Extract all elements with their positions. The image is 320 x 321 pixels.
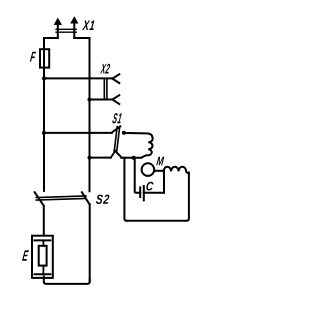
connector X2 lower contact — [90, 95, 120, 104]
node: junction right bus / X2 arm — [88, 98, 92, 102]
label S2 — [96, 195, 110, 204]
plug X1 — [44, 17, 90, 38]
heating element E — [32, 236, 53, 278]
label E — [22, 250, 29, 260]
connector X2 upper contact — [44, 74, 119, 83]
connector X2 bar — [104, 79, 107, 100]
label X1 — [82, 21, 94, 31]
switch S1 linkage bar — [114, 127, 120, 152]
label C — [146, 182, 153, 191]
motor winding L2 — [164, 167, 189, 173]
wire motor loop right and bottom — [127, 173, 189, 221]
switch S2 left pole — [35, 192, 44, 235]
node: junction left bus / X2 arm — [42, 76, 46, 80]
wire rotor to winding L2 — [154, 170, 163, 172]
node: junction right bus / S1 arm — [88, 156, 92, 160]
wire node A down to capacitor — [135, 158, 141, 193]
capacitor C — [140, 186, 164, 200]
switch S1 upper pole — [44, 126, 120, 132]
fuse F — [40, 49, 49, 67]
wire node B down to loop bottom — [124, 158, 126, 221]
label M — [156, 157, 164, 166]
wire bottom return — [44, 277, 90, 284]
motor winding L1 — [124, 133, 153, 158]
node A: winding / capacitor junction — [132, 156, 136, 160]
node: junction left bus / S1 arm — [42, 131, 46, 135]
wire right bus — [89, 38, 91, 191]
label X2 — [100, 64, 110, 74]
wire left bus — [43, 38, 45, 191]
motor M rotor — [142, 163, 155, 176]
wire capacitor to brush node — [163, 171, 165, 193]
label F — [30, 52, 37, 62]
label S1 — [112, 113, 121, 123]
switch S2 right pole — [82, 192, 90, 282]
node: S1 upper fixed contact — [122, 131, 126, 135]
switch S1 lower pole — [90, 150, 122, 157]
wire S1 output to node A — [121, 157, 141, 159]
switch S2 linkage bar — [36, 196, 86, 200]
